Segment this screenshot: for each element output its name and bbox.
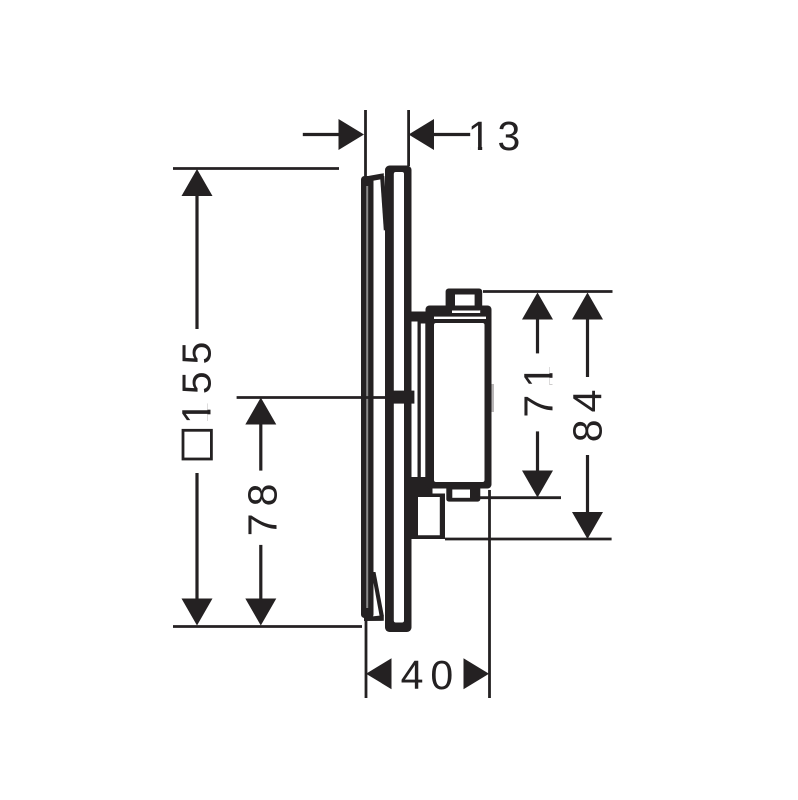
svg-text:155: 155 (174, 335, 220, 424)
svg-text:78: 78 (240, 477, 286, 537)
svg-text:40: 40 (401, 652, 461, 698)
svg-text:84: 84 (565, 383, 611, 443)
svg-text:71: 71 (516, 358, 562, 418)
svg-text:13: 13 (468, 113, 528, 159)
